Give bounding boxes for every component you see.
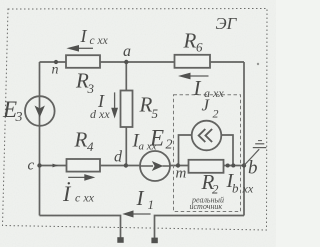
node m (junction dot): [176, 163, 180, 167]
EMF source E3: circle with down arrow: [25, 96, 55, 126]
current source J2: circle with double chevron: [192, 121, 222, 151]
small arrow on wire between c and R4: [53, 164, 59, 168]
terminal square right: [151, 238, 157, 244]
resistor R3: [66, 55, 100, 68]
dashed box: real source (реальный источник): [174, 95, 241, 212]
node n (junction dot): [54, 60, 58, 64]
junction dot at J2 branch: [231, 164, 235, 168]
current arrow I d xx (beside R5, pointing down): [114, 92, 116, 108]
resistor R6: [175, 55, 211, 68]
stray speck: [257, 63, 259, 65]
resistor R4: [67, 159, 101, 172]
node c (junction dot): [37, 163, 41, 167]
EMF source E2: circle with right arrow: [140, 151, 170, 181]
junction dot at R2 right terminal: [226, 164, 230, 168]
node a (junction dot): [124, 60, 128, 64]
wire bottom left segment with terminal stub: [40, 216, 121, 239]
wire right vertical: top corner through node b to bottom corner: [243, 62, 245, 216]
wire left vertical: top corner through E3 and node c to bottom corner: [39, 62, 41, 216]
ground (earth symbol at node b): [244, 149, 259, 165]
wire middle: c to R4 to d to E2 to m to R2 to b: [40, 165, 245, 167]
current arrow İ c xx (below R4, pointing right): [68, 176, 85, 178]
resistor R2: [189, 160, 224, 173]
current arrow I a xx (below R6, pointing left): [190, 75, 209, 77]
current arrow I c xx (above R3, pointing left): [77, 47, 93, 49]
resistor R5 (vertical): [121, 91, 133, 128]
wire bottom right segment with terminal stub: [155, 216, 245, 239]
node d (junction dot): [124, 163, 128, 167]
wire J2 branch right: J2 down to junction: [221, 135, 233, 166]
wire top: corner to n to R3 to a to R6 to right corner: [40, 61, 245, 63]
wire J2 branch left: up from m to J2: [179, 135, 192, 166]
terminal square left: [117, 237, 123, 243]
dotted frame: equivalent generator boundary ЭГ: [3, 9, 268, 231]
node b (junction dot): [242, 163, 246, 167]
current arrow I 1 (bottom, pointing left): [133, 213, 151, 215]
wire middle vertical: a through R5 to d: [125, 62, 127, 166]
